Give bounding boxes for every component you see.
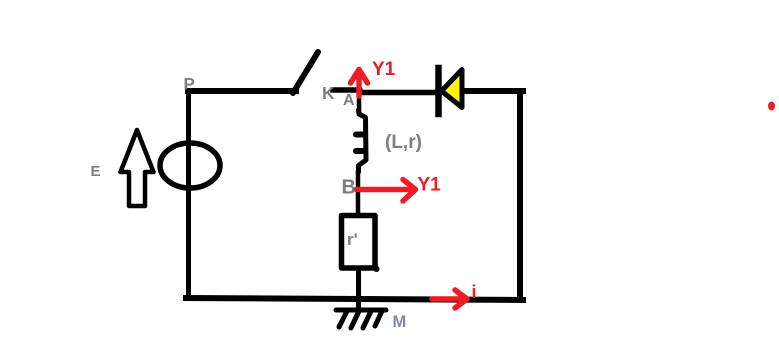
svg-text:E: E [91,163,101,180]
label r' [347,230,358,249]
wire inductor to B to resistor [356,170,361,213]
label A [343,92,355,109]
E polarity hollow arrow [121,130,154,206]
wire left rail P down to bottom [186,89,191,299]
ground bar [336,308,386,313]
resistor r' body [342,216,380,273]
label P [184,75,195,94]
wire K to A to diode [333,90,436,93]
svg-text:M: M [393,313,407,331]
wire bottom rail [186,298,523,300]
wire A down to inductor [357,92,362,114]
label M [393,313,407,331]
svg-text:P: P [184,75,195,94]
svg-text:A: A [343,92,355,109]
label K [322,83,335,103]
label Y1 at B [418,175,442,196]
ground hatch 4 [375,311,382,326]
ground hatch 3 [363,311,371,328]
ground hatch 2 [351,311,359,328]
svg-text:K: K [322,83,335,103]
stray red dot [768,102,775,111]
arrow Y1 up at A [351,70,368,97]
svg-text:Y1: Y1 [372,59,396,80]
switch K open blade [293,52,318,93]
label B [342,177,356,199]
svg-text:r': r' [347,230,358,249]
svg-text:(L,r): (L,r) [385,132,422,153]
voltage source E (circle) [160,143,220,188]
diode D (yellow triangle) [442,70,463,108]
inductor (L,r) squiggle [356,110,366,172]
ground hatch 1 [339,311,347,327]
label (L,r) [385,132,422,153]
label i [472,282,477,302]
diode cathode bar [435,68,442,114]
wire resistor down to ground [356,268,361,309]
label Y1 top [372,59,396,80]
wire top-left P to switch [188,88,296,94]
label E [91,163,101,180]
svg-text:Y1: Y1 [418,175,442,196]
svg-text:i: i [472,282,477,302]
wire right rail [517,91,523,300]
arrow i on bottom wire [432,290,467,308]
svg-text:B: B [342,177,356,199]
arrow Y1 right at B [357,180,416,202]
wire diode to top-right corner [460,88,523,94]
